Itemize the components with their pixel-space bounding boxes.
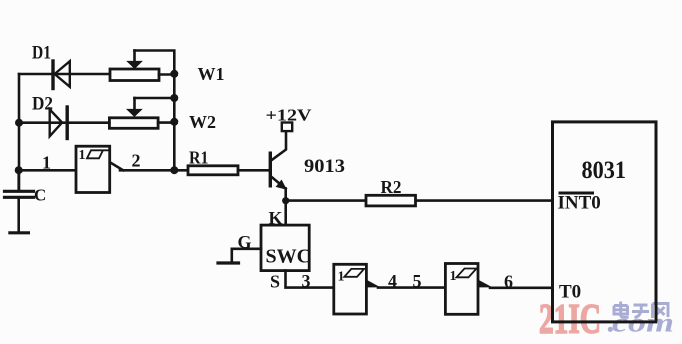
svg-text:K: K — [269, 208, 283, 228]
circuit ink — [15, 51, 656, 322]
label pin 1 — [42, 153, 51, 173]
8031 microcontroller U3 — [553, 122, 657, 322]
svg-text:D1: D1 — [32, 43, 51, 64]
node R1 input junction — [170, 166, 178, 174]
wire left bus vertical — [18, 74, 21, 191]
node left bus gate input junction — [15, 166, 23, 174]
watermark group drawn first (under circuit ink) — [539, 297, 674, 343]
ground C — [10, 231, 29, 234]
svg-text:G: G — [238, 232, 252, 252]
wire gate U1a output — [120, 169, 188, 172]
node Q1 emitter junction — [282, 197, 289, 204]
label pin 6 — [504, 272, 513, 292]
node W2 loop junction — [170, 94, 178, 102]
svg-text:1: 1 — [450, 269, 457, 284]
label C — [34, 186, 46, 205]
resistor R1 — [188, 166, 238, 175]
svg-text:21IC: 21IC — [539, 297, 601, 343]
svg-text:2: 2 — [132, 151, 141, 171]
wire S lead — [286, 271, 334, 288]
diode D2 — [50, 107, 67, 139]
wire gate U1a input — [19, 169, 76, 172]
svg-text:W1: W1 — [198, 64, 225, 84]
label R1 — [189, 148, 209, 168]
svg-text:3: 3 — [302, 271, 311, 291]
label 9013 — [304, 156, 345, 177]
label SWC — [266, 246, 312, 268]
label W1 — [198, 64, 225, 84]
label D1 — [32, 43, 51, 64]
label K — [269, 208, 283, 228]
svg-text:T0: T0 — [559, 282, 581, 303]
diode D1 — [53, 61, 70, 89]
node left bus D2 junction — [15, 119, 23, 127]
wire U1c output to 8031 T0 — [490, 286, 553, 289]
label pin 3 — [302, 271, 311, 291]
potentiometer W2 — [109, 98, 174, 128]
capacitor C — [5, 170, 34, 232]
ground G — [218, 261, 239, 264]
op-amp U1a schmitt inverter box — [76, 146, 123, 192]
wire K lead — [284, 201, 287, 226]
svg-text:9013: 9013 — [304, 156, 345, 177]
svg-text:6: 6 — [504, 272, 513, 292]
wire right bus vertical — [173, 74, 176, 171]
svg-text:R1: R1 — [189, 148, 209, 168]
svg-text:4: 4 — [388, 271, 397, 291]
svg-text:5: 5 — [413, 271, 422, 291]
label W2 — [189, 112, 216, 132]
wire R1 to Q1 base — [238, 169, 269, 172]
svg-text:1: 1 — [79, 148, 86, 163]
power +12V terminal — [282, 123, 292, 132]
label pin 2 — [132, 151, 141, 171]
label R2 — [381, 177, 402, 197]
svg-text:+12V: +12V — [266, 106, 312, 125]
wire G lead — [232, 249, 261, 263]
svg-text:INT0: INT0 — [558, 193, 601, 214]
label INT0 — [558, 193, 601, 214]
potentiometer W1 — [110, 51, 174, 81]
label D2 — [32, 94, 53, 115]
label pin 5 — [413, 271, 422, 291]
transistor Q1 9013 — [270, 131, 287, 201]
svg-text:1: 1 — [42, 153, 51, 173]
op-amp U1c schmitt inverter box — [445, 264, 492, 315]
svg-text:8031: 8031 — [582, 157, 627, 184]
svg-text:C: C — [34, 186, 46, 205]
svg-text:R2: R2 — [381, 177, 402, 197]
svg-text:W2: W2 — [189, 112, 216, 132]
wire D2 row horizontal — [19, 121, 109, 124]
op-amp U1b schmitt inverter box — [334, 264, 381, 314]
label S — [270, 272, 280, 292]
node W2 right junction — [170, 118, 178, 126]
wire D1 row horizontal — [19, 73, 110, 76]
wire emitter row to 8031 INT0 — [286, 199, 553, 202]
label T0 — [559, 282, 581, 303]
svg-text:D2: D2 — [32, 94, 53, 115]
wire U1b output to U1c — [378, 286, 445, 289]
label G — [238, 232, 252, 252]
svg-text:S: S — [270, 272, 280, 292]
label 8031 — [582, 157, 627, 184]
SWC thyristor box U2 — [261, 225, 309, 271]
node W1 right junction — [170, 70, 178, 78]
resistor R2 — [366, 195, 416, 206]
label pin 4 — [388, 271, 397, 291]
svg-text:SWC: SWC — [266, 246, 312, 268]
label +12V — [266, 106, 312, 125]
